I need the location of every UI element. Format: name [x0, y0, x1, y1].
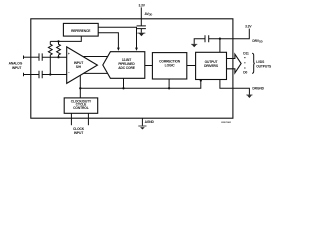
wire clock to S/H triangle: [79, 75, 81, 98]
resistor R2 (to AIN+): [57, 41, 61, 57]
wire S/H diff out upper: [84, 56, 108, 58]
node clock to correction logic: [168, 87, 170, 89]
wire DRVDD to output drivers: [219, 39, 221, 53]
svg-text:DRVDD: DRVDD: [252, 39, 262, 44]
ground DRGND: [246, 95, 252, 98]
wire clock distribution: [80, 80, 201, 88]
svg-text:CONTROL: CONTROL: [73, 106, 89, 110]
svg-text:AVDD: AVDD: [145, 12, 153, 17]
ground AGND: [138, 126, 146, 130]
ground (AVDD bypass): [137, 33, 145, 37]
svg-text:ADC CORE: ADC CORE: [118, 66, 136, 70]
wire S/H diff out lower: [84, 72, 109, 74]
svg-text:DRGND: DRGND: [252, 86, 264, 90]
node clock to S/H: [79, 87, 81, 89]
op-amp U2 INPUT S/H: [67, 47, 98, 84]
node DRVDD 3.3V supply: [209, 25, 263, 44]
wire upper input to S/H: [42, 56, 66, 58]
node R1 to lower input: [49, 73, 51, 75]
node clock to ADC core: [122, 87, 124, 89]
wire reference output upper: [98, 27, 136, 48]
bus arrow LVDS output: [227, 54, 242, 73]
svg-text:3.3V: 3.3V: [245, 25, 252, 29]
svg-text:LOGIC: LOGIC: [165, 64, 176, 68]
wire ADC core to correction logic: [145, 65, 153, 67]
wire clock input -: [87, 113, 89, 125]
capacitor C4 (DRVDD bypass): [205, 35, 209, 42]
wire output drivers to DRGND: [220, 80, 250, 95]
capacitor C2 (upper input coupling): [39, 53, 42, 60]
svg-text:INPUT: INPUT: [74, 131, 83, 135]
wire correction logic to output drivers: [187, 65, 196, 67]
OUTPUT DRIVERS box: [196, 52, 227, 79]
wire AGND stub: [141, 118, 143, 125]
node AVDD 3.3V supply: [139, 3, 153, 18]
svg-text:AGND: AGND: [145, 120, 155, 124]
node DRVDD junction: [219, 38, 221, 40]
node dots ellipsis: [244, 57, 245, 58]
wire lower input to S/H: [42, 74, 66, 76]
brace: [252, 53, 255, 73]
CORRECTION LOGIC box: [152, 53, 186, 79]
terminal tick AIN+: [23, 56, 25, 59]
svg-text:DRIVERS: DRIVERS: [204, 64, 219, 68]
arrowhead into ADC core (right): [135, 48, 138, 51]
capacitor C1 (AVDD bypass): [137, 19, 146, 33]
ADC core block (12-BIT PIPELINED ADC CORE): [103, 52, 145, 79]
wire lower analog input: [24, 74, 40, 76]
wire REFERENCE to resistor node: [50, 36, 81, 41]
REFERENCE box: [63, 23, 98, 36]
wire reference output lower: [98, 33, 118, 48]
svg-text:3.3V: 3.3V: [139, 3, 146, 7]
resistor R1 (to AIN-): [48, 41, 52, 74]
node resistor common: [57, 40, 59, 42]
wire upper analog input: [24, 56, 40, 58]
arrowhead into ADC core (left): [117, 48, 120, 51]
node clock to output drivers: [200, 79, 202, 81]
ground (DRVDD bypass): [191, 44, 197, 47]
svg-text:S/H: S/H: [76, 65, 82, 69]
svg-text:2220 TA01: 2220 TA01: [221, 121, 232, 124]
svg-text:REFERENCE: REFERENCE: [71, 29, 91, 33]
svg-text:D11: D11: [243, 52, 249, 56]
svg-text:+: +: [68, 52, 70, 56]
chip outline U1: [31, 19, 233, 118]
svg-text:INPUT: INPUT: [12, 66, 21, 70]
wire cap to ground: [194, 39, 205, 44]
terminal tick AIN-: [23, 73, 25, 76]
svg-text:–: –: [68, 70, 70, 74]
wire clock stub to correction logic: [168, 79, 170, 88]
capacitor C3 (lower input coupling): [39, 71, 42, 78]
svg-text:D0: D0: [243, 71, 247, 75]
node R2 to upper input: [57, 56, 59, 58]
CLOCK/DUTY CYCLE CONTROL box: [64, 98, 98, 113]
svg-text:OUTPUTS: OUTPUTS: [256, 64, 272, 68]
wire clock stub to ADC core: [123, 78, 125, 88]
wire clock input +: [70, 113, 72, 125]
